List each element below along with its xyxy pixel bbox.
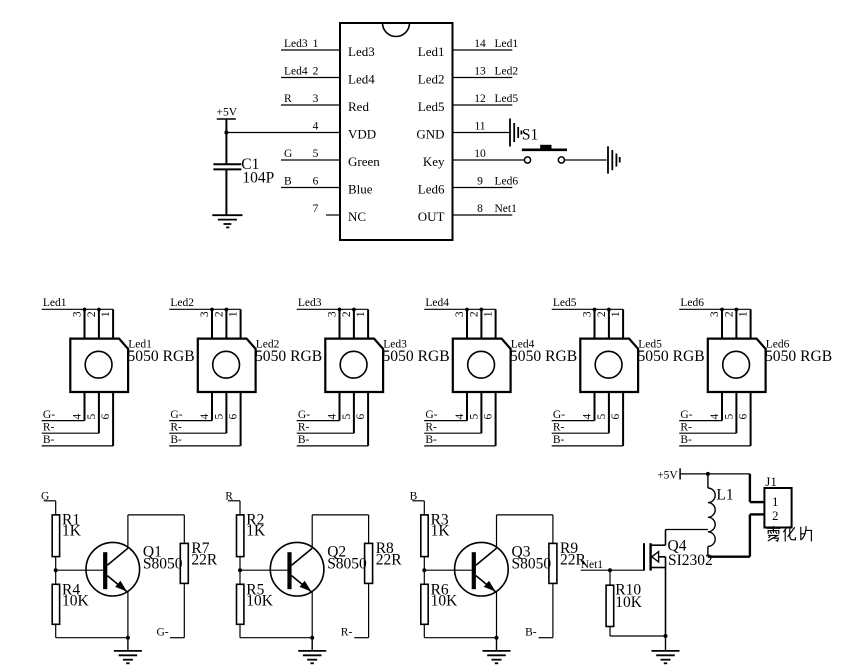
- IC pin 5 (Green) left: [281, 148, 380, 169]
- wire emitter of Q1 down: [127, 592, 129, 638]
- svg-text:B-: B-: [680, 434, 692, 446]
- svg-text:5050 RGB: 5050 RGB: [638, 348, 705, 365]
- node emitter junction Q1: [126, 636, 130, 640]
- svg-text:22R: 22R: [376, 551, 403, 568]
- svg-text:Led5: Led5: [418, 99, 445, 114]
- svg-text:S8050: S8050: [143, 556, 183, 573]
- svg-text:G-: G-: [680, 409, 692, 421]
- resistor R4 10K: [52, 581, 89, 624]
- LED Led5 5050 RGB package: [580, 309, 704, 446]
- node pin3 junction Led5: [593, 308, 597, 312]
- svg-text:1: 1: [738, 311, 750, 317]
- IC pin 11 (GND) right: [416, 121, 509, 142]
- svg-text:GND: GND: [416, 127, 444, 142]
- svg-text:Led6: Led6: [495, 176, 519, 188]
- node +5V / C1 junction: [224, 131, 228, 135]
- resistor R8 22R: [365, 540, 403, 584]
- net R- wire (Led2): [169, 421, 226, 433]
- svg-text:1: 1: [100, 311, 112, 317]
- node +5V / L1 junction: [706, 472, 710, 476]
- svg-text:R-: R-: [553, 421, 565, 433]
- svg-text:R-: R-: [170, 421, 182, 433]
- svg-text:4: 4: [72, 413, 84, 419]
- svg-text:J1: J1: [765, 474, 777, 489]
- svg-text:1: 1: [610, 311, 622, 317]
- svg-text:5050 RGB: 5050 RGB: [128, 348, 195, 365]
- svg-text:Red: Red: [348, 99, 369, 114]
- svg-text:S8050: S8050: [512, 556, 552, 573]
- svg-text:9: 9: [477, 176, 483, 188]
- svg-text:1: 1: [228, 311, 240, 317]
- node base junction Q1: [54, 568, 58, 572]
- svg-text:VDD: VDD: [348, 127, 376, 142]
- svg-text:G-: G-: [170, 409, 182, 421]
- resistor R5 10K: [237, 581, 274, 624]
- svg-text:G-: G-: [298, 409, 310, 421]
- wire R4 to emitter rail: [56, 624, 128, 637]
- svg-text:5: 5: [214, 413, 226, 419]
- svg-text:4: 4: [582, 413, 594, 419]
- svg-text:2: 2: [469, 311, 481, 317]
- svg-text:L1: L1: [716, 486, 733, 503]
- svg-text:12: 12: [474, 93, 486, 105]
- wire R1 to base node: [55, 557, 57, 571]
- wire base node to Q2 base: [240, 569, 287, 571]
- wire R7 to net G-: [157, 583, 185, 638]
- node base junction Q2: [238, 568, 242, 572]
- svg-text:+5V: +5V: [657, 470, 678, 482]
- svg-text:5050 RGB: 5050 RGB: [765, 348, 832, 365]
- IC pin 10 (Key) right: [423, 148, 525, 169]
- net R- wire (Led3): [297, 421, 354, 433]
- svg-text:Key: Key: [423, 154, 445, 169]
- svg-text:Net1: Net1: [581, 559, 604, 571]
- connector J1: [764, 474, 791, 527]
- svg-text:Led1: Led1: [495, 38, 519, 50]
- svg-text:OUT: OUT: [418, 209, 445, 224]
- svg-text:Led4: Led4: [425, 297, 449, 309]
- node Q4 source junction: [664, 634, 668, 638]
- svg-text:14: 14: [474, 38, 486, 50]
- svg-text:3: 3: [582, 311, 594, 317]
- net G- wire (Led3): [297, 409, 340, 421]
- svg-text:Led2: Led2: [418, 72, 445, 87]
- ground (Q3 emitter): [483, 638, 511, 664]
- svg-text:Led1: Led1: [43, 297, 67, 309]
- node emitter junction Q3: [495, 636, 499, 640]
- wire R10 to Q4 source rail: [610, 627, 666, 637]
- net B- wire (Led6): [679, 434, 750, 446]
- wire collector of Q2 to R8: [312, 515, 368, 548]
- svg-text:Net1: Net1: [495, 203, 518, 215]
- wire R2 to base node: [239, 557, 241, 571]
- ground (S1, rotated): [608, 146, 620, 173]
- IC pin 9 (Led6) right: [418, 176, 519, 197]
- node pin3 junction Led1: [83, 308, 87, 312]
- svg-text:Led3: Led3: [284, 38, 308, 50]
- label 雾化片 (atomizer) hand-drawn glyphs: [767, 527, 812, 542]
- svg-text:1K: 1K: [246, 523, 266, 540]
- wire base node to Q1 base: [56, 569, 103, 571]
- svg-text:Led4: Led4: [348, 72, 375, 87]
- wire base node to R5: [239, 570, 241, 584]
- wire R3 to base node: [423, 557, 425, 571]
- resistor R2 1K: [237, 511, 267, 556]
- svg-text:5: 5: [86, 413, 98, 419]
- ground (C1): [212, 215, 242, 227]
- svg-text:5: 5: [313, 148, 319, 160]
- wire Q4 drain to L1 bottom: [666, 530, 708, 546]
- LED Led6 5050 RGB package: [708, 309, 832, 446]
- IC pin 8 (OUT) right: [418, 203, 517, 224]
- net label Led3 + top wire: [297, 297, 368, 309]
- wire base node to R4: [55, 570, 57, 584]
- resistor R10 10K: [606, 582, 643, 627]
- svg-text:4: 4: [313, 121, 319, 133]
- IC chip body: [340, 23, 453, 240]
- svg-text:6: 6: [610, 413, 622, 419]
- svg-text:3: 3: [72, 311, 84, 317]
- inductor L1: [708, 474, 734, 557]
- svg-text:6: 6: [228, 413, 240, 419]
- svg-text:Green: Green: [348, 154, 380, 169]
- wire +5V to IC pin 4: [226, 132, 340, 134]
- svg-text:B-: B-: [425, 434, 437, 446]
- IC pin 2 (Led4) left: [281, 66, 375, 87]
- svg-text:22R: 22R: [191, 551, 218, 568]
- svg-text:1K: 1K: [62, 523, 82, 540]
- svg-text:3: 3: [199, 311, 211, 317]
- resistor R3 1K: [421, 511, 451, 556]
- svg-text:Led6: Led6: [418, 182, 445, 197]
- net label G + lead wire: [41, 490, 56, 515]
- wire collector of Q1 to R7: [128, 515, 184, 548]
- LED Led1 5050 RGB package: [70, 309, 194, 446]
- svg-text:2: 2: [86, 311, 98, 317]
- svg-text:1K: 1K: [431, 523, 451, 540]
- svg-text:G-: G-: [43, 409, 55, 421]
- svg-text:3: 3: [313, 93, 319, 105]
- svg-text:6: 6: [313, 176, 319, 188]
- resistor R6 10K: [421, 581, 458, 624]
- svg-text:1: 1: [772, 494, 779, 509]
- svg-text:G: G: [284, 148, 292, 160]
- svg-text:B-: B-: [43, 434, 55, 446]
- ground (Q4 source): [652, 636, 680, 663]
- net B- wire (Led5): [552, 434, 623, 446]
- power +5V (left): [217, 107, 238, 133]
- wire node to R10: [609, 570, 611, 585]
- svg-text:Led3: Led3: [348, 44, 375, 59]
- wire +5V to J1 pin 1: [680, 474, 764, 502]
- svg-text:10: 10: [474, 148, 486, 160]
- node base junction Q3: [422, 568, 426, 572]
- node pin2 junction Led5: [607, 308, 611, 312]
- svg-text:B-: B-: [170, 434, 182, 446]
- node Net1 / R10 junction: [608, 568, 612, 572]
- capacitor C1 104P: [213, 133, 274, 216]
- net label Net1 + wire to Q4 gate: [581, 559, 644, 571]
- wire emitter of Q3 down: [496, 592, 498, 638]
- transistor Q2 S8050: [270, 542, 367, 596]
- svg-text:2: 2: [341, 311, 353, 317]
- svg-text:R-: R-: [680, 421, 692, 433]
- net G- wire (Led1): [42, 409, 85, 421]
- ground (Q1 emitter): [114, 638, 142, 664]
- net label Led1 + top wire: [42, 297, 113, 309]
- net G- wire (Led4): [424, 409, 467, 421]
- svg-text:3: 3: [454, 311, 466, 317]
- IC pin 6 (Blue) left: [281, 176, 373, 197]
- node pin3 junction Led3: [338, 308, 342, 312]
- svg-text:5: 5: [469, 413, 481, 419]
- svg-text:G-: G-: [553, 409, 565, 421]
- wire base node to R6: [423, 570, 425, 584]
- svg-text:2: 2: [313, 66, 319, 78]
- svg-text:G-: G-: [157, 627, 169, 639]
- svg-text:7: 7: [313, 203, 319, 215]
- svg-text:B-: B-: [553, 434, 565, 446]
- node pin2 junction Led1: [97, 308, 101, 312]
- net R- wire (Led1): [42, 421, 99, 433]
- svg-text:5050 RGB: 5050 RGB: [255, 348, 322, 365]
- svg-text:Blue: Blue: [348, 182, 373, 197]
- wire base node to Q3 base: [424, 569, 471, 571]
- wire emitter of Q2 down: [311, 592, 313, 638]
- resistor R9 22R: [549, 540, 587, 584]
- net R- wire (Led6): [679, 421, 736, 433]
- IC pin 12 (Led5) right: [418, 93, 519, 114]
- svg-text:Led5: Led5: [553, 297, 577, 309]
- node pin2 junction Led3: [352, 308, 356, 312]
- IC pin 13 (Led2) right: [418, 66, 519, 87]
- svg-text:R-: R-: [298, 421, 310, 433]
- net label Led6 + top wire: [679, 297, 750, 309]
- ground (pin 11, rotated): [510, 119, 521, 147]
- net B- wire (Led4): [424, 434, 495, 446]
- wire collector of Q3 to R9: [497, 515, 553, 548]
- svg-text:6: 6: [483, 413, 495, 419]
- transistor Q3 S8050: [455, 542, 552, 596]
- svg-text:3: 3: [327, 311, 339, 317]
- svg-text:G-: G-: [425, 409, 437, 421]
- svg-text:S8050: S8050: [327, 556, 367, 573]
- net G- wire (Led5): [552, 409, 595, 421]
- net label R + lead wire: [225, 490, 240, 515]
- svg-text:10K: 10K: [615, 594, 643, 611]
- node pin3 junction Led4: [465, 308, 469, 312]
- wire R9 to net B-: [525, 583, 553, 638]
- svg-text:10K: 10K: [431, 593, 459, 610]
- svg-text:4: 4: [327, 413, 339, 419]
- wire L1 / J1 pin 2: [708, 514, 765, 556]
- svg-text:5: 5: [596, 413, 608, 419]
- IC pin 3 (Red) left: [281, 93, 369, 114]
- IC pin 4 (VDD) left: [313, 121, 377, 142]
- svg-text:NC: NC: [348, 209, 366, 224]
- net G- wire (Led6): [679, 409, 722, 421]
- ground (Q2 emitter): [298, 638, 326, 664]
- svg-text:5: 5: [724, 413, 736, 419]
- svg-text:B-: B-: [525, 627, 537, 639]
- wire switch to ground: [565, 159, 607, 161]
- svg-text:R-: R-: [425, 421, 437, 433]
- svg-text:5050 RGB: 5050 RGB: [510, 348, 577, 365]
- svg-text:1: 1: [313, 38, 319, 50]
- svg-text:1: 1: [483, 311, 495, 317]
- svg-text:4: 4: [454, 413, 466, 419]
- transistor Q4 SI2302 MOSFET: [644, 538, 713, 637]
- svg-text:S1: S1: [522, 126, 538, 143]
- svg-text:+5V: +5V: [217, 107, 238, 119]
- LED Led4 5050 RGB package: [453, 309, 577, 446]
- node pin2 junction Led4: [480, 308, 484, 312]
- switch S1 pushbutton: [522, 145, 567, 163]
- net label Led5 + top wire: [552, 297, 623, 309]
- svg-text:6: 6: [738, 413, 750, 419]
- svg-text:6: 6: [355, 413, 367, 419]
- svg-text:2: 2: [214, 311, 226, 317]
- svg-text:Led4: Led4: [284, 66, 308, 78]
- IC pin 14 (Led1) right: [418, 38, 519, 59]
- net G- wire (Led2): [169, 409, 212, 421]
- node pin3 junction Led6: [720, 308, 724, 312]
- svg-text:10K: 10K: [62, 593, 90, 610]
- svg-text:3: 3: [709, 311, 721, 317]
- transistor Q1 S8050: [86, 542, 183, 596]
- wire R6 to emitter rail: [424, 624, 496, 637]
- svg-text:Led5: Led5: [495, 93, 519, 105]
- svg-text:2: 2: [772, 508, 779, 523]
- svg-text:4: 4: [709, 413, 721, 419]
- svg-text:2: 2: [596, 311, 608, 317]
- svg-text:11: 11: [474, 121, 485, 133]
- svg-text:8: 8: [477, 203, 483, 215]
- svg-text:R: R: [284, 93, 292, 105]
- svg-text:104P: 104P: [242, 170, 274, 187]
- node emitter junction Q2: [310, 636, 314, 640]
- node pin3 junction Led2: [210, 308, 214, 312]
- wire R8 to net R-: [341, 583, 369, 638]
- svg-text:13: 13: [474, 66, 486, 78]
- LED Led3 5050 RGB package: [325, 309, 449, 446]
- net B- wire (Led2): [169, 434, 240, 446]
- svg-text:R-: R-: [341, 627, 353, 639]
- net label Led2 + top wire: [169, 297, 240, 309]
- svg-text:B-: B-: [298, 434, 310, 446]
- svg-text:Led2: Led2: [170, 297, 194, 309]
- wire R5 to emitter rail: [240, 624, 312, 637]
- svg-text:10K: 10K: [246, 593, 273, 610]
- node pin2 junction Led6: [735, 308, 739, 312]
- svg-text:Led6: Led6: [680, 297, 704, 309]
- resistor R1 1K: [52, 511, 82, 556]
- svg-text:SI2302: SI2302: [668, 552, 713, 569]
- node pin2 junction Led2: [225, 308, 229, 312]
- svg-text:4: 4: [199, 413, 211, 419]
- svg-text:6: 6: [100, 413, 112, 419]
- svg-text:R-: R-: [43, 421, 55, 433]
- svg-text:5: 5: [341, 413, 353, 419]
- net B- wire (Led1): [42, 434, 113, 446]
- svg-text:2: 2: [724, 311, 736, 317]
- svg-text:Led1: Led1: [418, 44, 445, 59]
- net label B + lead wire: [410, 490, 425, 515]
- svg-text:B: B: [284, 176, 292, 188]
- net B- wire (Led3): [297, 434, 368, 446]
- svg-text:Led2: Led2: [495, 66, 519, 78]
- resistor R7 22R: [180, 540, 218, 584]
- net R- wire (Led5): [552, 421, 609, 433]
- net R- wire (Led4): [424, 421, 481, 433]
- net label Led4 + top wire: [424, 297, 495, 309]
- svg-text:5050 RGB: 5050 RGB: [383, 348, 450, 365]
- svg-text:Led3: Led3: [298, 297, 322, 309]
- IC pin 1 (Led3) left: [281, 38, 375, 59]
- IC pin 7 (NC) left: [313, 203, 366, 224]
- svg-text:1: 1: [355, 311, 367, 317]
- LED Led2 5050 RGB package: [198, 309, 322, 446]
- power +5V (right): [657, 468, 680, 481]
